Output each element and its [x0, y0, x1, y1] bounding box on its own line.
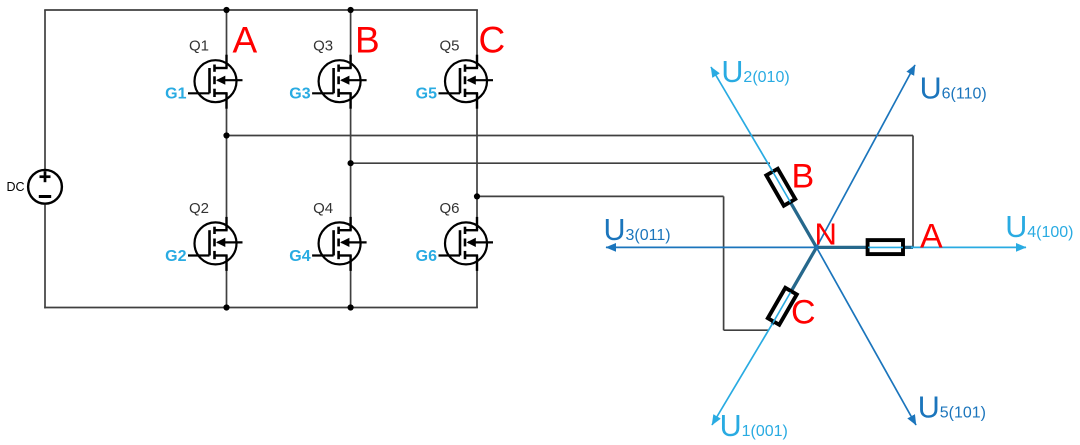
wire bottom bus — [44, 307, 478, 309]
wire N to phase A (load A feed) — [817, 246, 914, 249]
wire leg B mid (Q3 source to Q4 drain) — [350, 93, 352, 230]
resistor A (load phase A) — [868, 240, 903, 254]
wire phase C vertical — [723, 196, 725, 330]
vector U4 arrow — [911, 246, 1026, 248]
transistor Q3 — [312, 55, 367, 109]
transistor Q4 — [312, 217, 367, 271]
svg-text:DC: DC — [7, 180, 25, 194]
wire left lower (from DC -) — [44, 205, 46, 309]
vector U1 line through resistor C — [773, 292, 791, 322]
vector U5 arrow — [817, 247, 917, 425]
svg-text:A: A — [233, 20, 258, 61]
svg-text:C: C — [479, 20, 506, 61]
wire left upper (to DC +) — [44, 10, 46, 169]
junction phase B tap — [348, 160, 354, 166]
svg-text:Q5: Q5 — [440, 38, 460, 55]
vector U2 line through resistor B — [773, 172, 791, 202]
wire phase A horizontal — [227, 135, 914, 137]
transistor Q6 — [439, 217, 494, 271]
svg-text:G1: G1 — [165, 86, 186, 103]
wire phase A vertical drop — [912, 136, 914, 248]
svg-text:G6: G6 — [416, 248, 437, 265]
vector U2 arrow — [711, 67, 773, 171]
wire phase B horizontal — [351, 162, 770, 164]
transistor Q2 — [188, 217, 243, 271]
wire leg B Q4 source to bottom — [350, 256, 352, 308]
svg-text:Q4: Q4 — [313, 200, 333, 217]
svg-text:N: N — [815, 217, 837, 252]
svg-text:B: B — [355, 20, 380, 61]
junction bottom leg B — [348, 304, 354, 310]
wire leg C Q6 source to bottom — [476, 256, 478, 308]
svg-text:A: A — [920, 218, 943, 256]
svg-text:G4: G4 — [289, 248, 310, 265]
junction bottom leg A — [223, 304, 229, 310]
wire leg C mid (Q5 source to Q6 drain) — [476, 93, 478, 230]
svg-text:C: C — [791, 294, 816, 332]
svg-text:G3: G3 — [289, 86, 310, 103]
vector U3 arrow — [606, 246, 817, 248]
wire N to load B — [772, 170, 817, 247]
svg-text:G2: G2 — [165, 248, 186, 265]
junction top leg A — [223, 7, 229, 13]
svg-text:Q3: Q3 — [313, 38, 333, 55]
transistor Q5 — [439, 55, 494, 109]
wire leg A mid (Q1 source to Q2 drain) — [226, 93, 228, 230]
wire top bus — [44, 9, 478, 11]
vector U1 arrow — [712, 324, 773, 425]
wire leg A Q2 source to bottom — [226, 256, 228, 308]
wire leg C drain Q5 — [476, 10, 478, 68]
resistor C (load phase C) — [768, 288, 797, 325]
resistor B (load phase B) — [766, 169, 795, 206]
svg-text:Q2: Q2 — [189, 200, 209, 217]
svg-text:B: B — [792, 158, 815, 196]
transistor Q1 — [188, 55, 243, 109]
wire phase C to resistor — [724, 329, 768, 331]
svg-text:Q1: Q1 — [189, 38, 209, 55]
junction phase A tap — [223, 132, 229, 138]
wire leg A drain Q1 — [226, 10, 228, 68]
DC source V1 — [28, 170, 62, 204]
junction top leg B — [348, 7, 354, 13]
junction phase C tap — [474, 193, 480, 199]
vector U6 arrow — [817, 65, 916, 247]
svg-text:Q6: Q6 — [440, 200, 460, 217]
wire phase C horizontal — [477, 195, 724, 197]
svg-text:G5: G5 — [416, 86, 437, 103]
wire N to load C — [772, 247, 817, 324]
wire leg B drain Q3 — [350, 10, 352, 68]
vector U4 line through resistor A — [868, 246, 903, 248]
